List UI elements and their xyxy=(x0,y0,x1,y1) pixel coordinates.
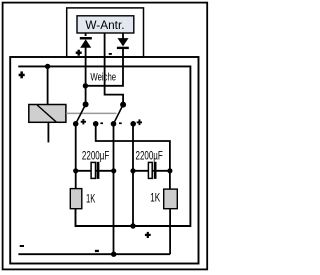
node dot C1 left xyxy=(73,168,78,173)
junction dot minus bus xyxy=(111,252,116,257)
label - near minus bus junction xyxy=(95,250,99,252)
wire: P2 down then right (minus link) to right cap C2 minus side xyxy=(96,124,170,189)
label - at P3 xyxy=(119,122,122,124)
wire: P3 down to minus bottom bus xyxy=(113,124,115,254)
junction dot plus bus to C2 branch xyxy=(130,223,135,228)
wire lead left from W-Antr to diode D1 xyxy=(85,33,87,36)
svg-text:W-Antr.: W-Antr. xyxy=(85,18,124,32)
svg-text:Weiche: Weiche xyxy=(90,71,116,83)
wire: P1 down to capacitor C1 left node xyxy=(75,124,77,189)
capacitor C1 plates xyxy=(91,162,99,179)
diode D1 (cathode up) xyxy=(80,37,92,48)
contact dot P2 xyxy=(93,121,99,127)
resistor R2 xyxy=(164,189,178,209)
wire: P4 down to plus bus dot xyxy=(132,124,134,226)
contact dot P3 xyxy=(111,121,117,127)
label - at left end of minus bus xyxy=(20,245,24,247)
plus bus wire (top, right side, bottom) xyxy=(18,66,190,226)
wire: junction down to relay coil xyxy=(47,66,49,104)
wire: middle lead from W-Antr down, jog right, to switch contact K2 xyxy=(105,33,124,105)
upper contact dot of S2 xyxy=(120,102,126,108)
junction dot relay feed xyxy=(45,64,50,69)
svg-text:2200µF: 2200µF xyxy=(82,148,109,162)
label + at P1 xyxy=(81,119,86,124)
main circuit box xyxy=(10,57,198,264)
resistor R1 xyxy=(70,189,82,209)
mechanical link (gray) from relay to switch arms xyxy=(66,112,116,114)
wire: D2 cathode down then left to junction A xyxy=(86,47,123,86)
minus bottom bus wire xyxy=(18,253,170,255)
wire: R2 bottom down to minus bus corner xyxy=(169,209,171,255)
wire: junction A down to switch contact K1 xyxy=(85,86,87,105)
contact dot P1 xyxy=(73,121,79,127)
node dot C2 left xyxy=(130,168,135,173)
capacitor C2 wire xyxy=(133,170,170,172)
antrieb enclosure box xyxy=(67,8,144,57)
diode D2 (cathode down) xyxy=(117,38,129,49)
svg-text:1K: 1K xyxy=(150,193,160,205)
W-Antr. box U1 xyxy=(77,16,134,33)
label - at diode D2 xyxy=(109,53,112,55)
upper contact dot of S1 xyxy=(83,101,89,107)
capacitor C1 wire xyxy=(76,170,114,172)
svg-text:2200µF: 2200µF xyxy=(136,148,163,162)
label + at diode D1 xyxy=(76,50,82,56)
wire stub below relay xyxy=(47,122,49,142)
capacitor C2 plates xyxy=(148,162,156,179)
node dot C1 right xyxy=(111,168,116,173)
contact dot P4 xyxy=(130,121,136,127)
wire lead right from W-Antr to diode D2 xyxy=(122,33,124,39)
wire: D1 anode down to junction A xyxy=(85,46,87,86)
node dot C2 right xyxy=(167,168,172,173)
label + at bottom right xyxy=(145,232,151,238)
label - at P2 xyxy=(100,122,103,124)
relay K (coil box with diagonal) xyxy=(29,105,66,123)
svg-text:1K: 1K xyxy=(86,193,96,205)
page border xyxy=(3,3,208,270)
node A junction dot xyxy=(83,83,88,88)
label + at P4 xyxy=(137,119,142,125)
label + at left end of plus bus xyxy=(19,71,25,78)
switch arm S1 xyxy=(76,104,86,123)
switch arm S2 xyxy=(114,105,124,124)
